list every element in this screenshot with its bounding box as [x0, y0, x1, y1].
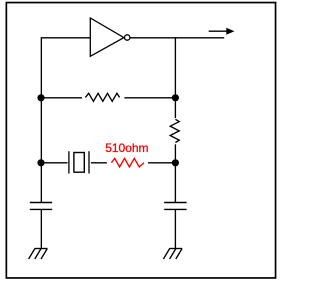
junction (left, crystal node) [37, 159, 44, 166]
wire (R3 to right crystal node) [148, 162, 175, 164]
junction (left, feedback node) [37, 94, 44, 101]
wire left rail (feedback node down to cap C1) [40, 98, 42, 203]
ground (left) [29, 249, 48, 260]
wire (left junction to R1) [41, 97, 82, 99]
capacitor C2 [164, 203, 186, 210]
resistor R1 (feedback) [85, 93, 119, 101]
wire right rail (output to R2 top) [174, 38, 176, 118]
inverter U1 [90, 18, 130, 56]
wire (C1 to ground) [40, 209, 42, 248]
wire (R2 bottom to crystal node) [174, 144, 176, 163]
wire (R1 to right junction) [124, 97, 175, 99]
wire (crystal left lead) [41, 162, 68, 164]
capacitor C1 [30, 203, 52, 210]
wire input (top-left corner to inverter input) [41, 38, 90, 98]
wire (crystal right lead to R3) [91, 162, 107, 164]
resistor R2 (vertical) [170, 119, 179, 142]
resistor R3 510ohm (red) [111, 158, 144, 167]
svg-text:510ohm: 510ohm [105, 141, 148, 155]
crystal X1 [69, 151, 89, 173]
wire (C2 to ground) [174, 209, 176, 248]
wire output (bubble to right edge) [130, 37, 224, 39]
junction (right, crystal node) [172, 159, 179, 166]
wire right rail (crystal node down to cap C2) [174, 163, 176, 203]
output arrow [209, 28, 235, 35]
junction (right, R2 top node) [172, 94, 179, 101]
ground (right) [163, 249, 182, 260]
